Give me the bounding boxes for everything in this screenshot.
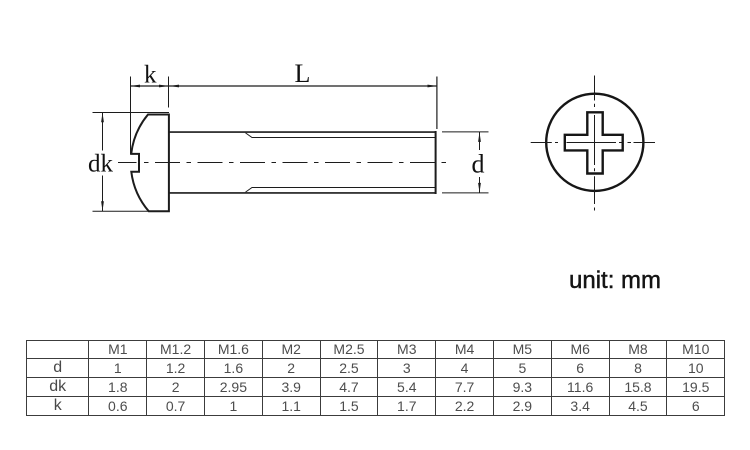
d extension top <box>442 131 489 133</box>
dk extension top <box>93 112 170 114</box>
svg-text:L: L <box>295 59 311 88</box>
L extension line right <box>436 77 438 130</box>
shaft top line <box>169 131 436 133</box>
front view circle <box>546 94 643 191</box>
phillips cross outline <box>565 112 623 173</box>
dk extension bottom <box>93 210 151 212</box>
shaft bottom line <box>169 192 436 194</box>
k arrow right <box>159 85 169 88</box>
d arrow top <box>478 132 481 142</box>
centerline solid leader <box>118 162 137 164</box>
k arrow left <box>130 85 140 88</box>
svg-text:k: k <box>144 62 157 89</box>
dk dimension line upper <box>102 112 104 150</box>
svg-text:d: d <box>472 150 485 179</box>
k dimension line <box>130 85 169 87</box>
svg-text:dk: dk <box>88 151 114 178</box>
front view horizontal centerline <box>531 142 655 144</box>
d extension bottom <box>442 192 489 194</box>
dk arrow top <box>101 113 104 123</box>
k extension line left <box>130 77 132 155</box>
thread minor line top <box>246 133 436 138</box>
thread minor line bottom <box>246 188 436 193</box>
shaft end line <box>435 131 437 194</box>
front view vertical centerline <box>594 76 596 211</box>
d arrow bottom <box>478 183 481 193</box>
screw head outline <box>131 115 169 212</box>
k extension line right <box>168 77 170 108</box>
d dimension line upper <box>479 132 481 150</box>
dk dimension line lower <box>102 176 104 212</box>
L arrow right <box>428 85 438 88</box>
dimension table <box>26 340 725 416</box>
d dimension line lower <box>479 177 481 193</box>
unit label <box>569 267 661 295</box>
L arrow left <box>169 85 179 88</box>
dk arrow bottom <box>101 201 104 211</box>
centerline dash-dot <box>144 162 452 164</box>
L dimension line <box>169 85 437 87</box>
